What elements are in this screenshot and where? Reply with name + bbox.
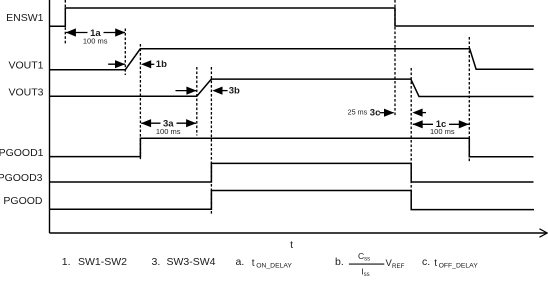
svg-text:3b: 3b (229, 86, 240, 97)
dimension small left arrow at line G (412, 109, 426, 117)
wire PGOOD waveform (50, 191, 535, 210)
svg-text:1b: 1b (156, 59, 167, 70)
svg-text:a.: a. (236, 256, 245, 268)
svg-text:VOUT1: VOUT1 (8, 60, 43, 72)
svg-text:REF: REF (392, 263, 405, 270)
node dashed line E (PGOOD3/PGOOD rise, x=211.4) (210, 67, 212, 214)
dimension arrow pair 1b (VOUT1 soft-start ramp) (108, 59, 167, 70)
svg-text:t: t (290, 239, 293, 251)
wire ENSW1 waveform (50, 8, 535, 26)
node dashed line B (VOUT1 ramp start, x=125.3) (124, 29, 126, 76)
svg-text:OFF_DELAY: OFF_DELAY (439, 262, 479, 269)
svg-text:100 ms: 100 ms (430, 127, 455, 136)
svg-text:25 ms: 25 ms (348, 107, 368, 116)
svg-text:1.: 1. (62, 256, 71, 268)
dimension arrow 1c with label and 100 ms (413, 119, 470, 136)
svg-text:b.: b. (335, 256, 344, 268)
svg-text:100 ms: 100 ms (156, 127, 181, 136)
wire left boundary line (49, 0, 51, 233)
dimension arrow 3c with 25 ms label (348, 107, 395, 118)
wire VOUT3 waveform (50, 79, 534, 96)
node dashed line C (PGOOD1 rise, x=140.4) (139, 44, 141, 161)
wire PGOOD3 waveform (50, 163, 534, 182)
legend item b. Css/Iss VREF (335, 251, 405, 278)
svg-text:SW3-SW4: SW3-SW4 (167, 256, 216, 268)
node dashed line H (VOUT1 fall / PGOOD1 drop, x=469.3) (468, 37, 470, 163)
svg-text:PGOOD3: PGOOD3 (0, 172, 43, 184)
svg-text:SW1-SW2: SW1-SW2 (78, 256, 127, 268)
svg-text:ENSW1: ENSW1 (6, 12, 44, 24)
svg-text:PGOOD: PGOOD (3, 195, 43, 207)
svg-text:t: t (434, 258, 437, 269)
legend item a. tON_DELAY (236, 256, 293, 269)
node dashed line A (ENSW1 rising edge, x=65.3) (64, 0, 66, 44)
svg-text:100 ms: 100 ms (83, 36, 108, 45)
dimension arrow 1a with label and 100 ms (66, 27, 126, 45)
wire time axis with arrowhead (50, 229, 548, 237)
svg-text:3c: 3c (370, 108, 381, 119)
node dashed line F (ENSW1 falling edge, x=395) (394, 0, 396, 117)
svg-text:VOUT3: VOUT3 (8, 86, 43, 98)
dimension arrow 3a with label and 100 ms (141, 118, 196, 136)
node dashed line D (VOUT3 ramp start, x=196.8) (196, 67, 198, 136)
node dashed line G (VOUT3 fall / PGOOD3 PGOOD drop, x=411.2) (410, 68, 412, 210)
svg-text:ON_DELAY: ON_DELAY (256, 262, 292, 269)
wire PGOOD1 waveform (50, 138, 534, 157)
svg-text:t: t (252, 258, 255, 269)
svg-text:c.: c. (422, 256, 430, 268)
wire VOUT1 waveform (50, 49, 534, 70)
svg-text:PGOOD1: PGOOD1 (0, 147, 44, 159)
legend item 3. SW3-SW4 (152, 256, 216, 268)
svg-text:3.: 3. (152, 256, 161, 268)
legend item c. tOFF_DELAY (422, 256, 478, 269)
legend item 1. SW1-SW2 (62, 256, 127, 268)
dimension arrow pair 3b (VOUT3 soft-start ramp) (176, 86, 240, 97)
